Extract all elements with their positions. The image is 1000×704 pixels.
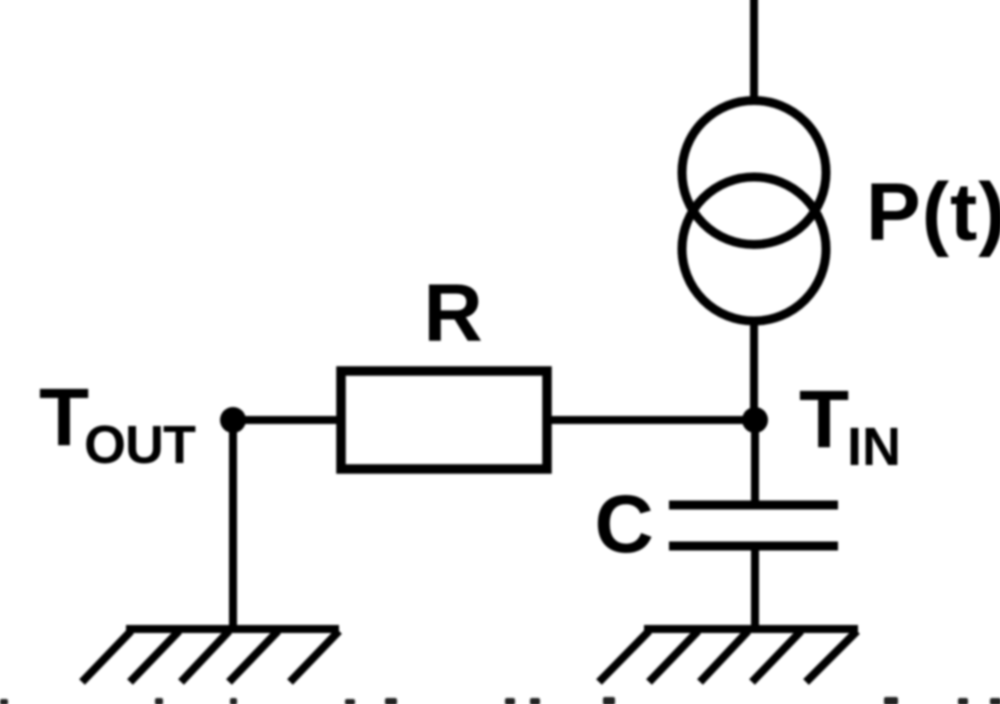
svg-text:OUT: OUT: [84, 415, 196, 475]
svg-text:P(t): P(t): [866, 167, 1000, 258]
svg-text:T: T: [799, 374, 849, 465]
svg-text:C: C: [595, 479, 654, 570]
svg-text:R: R: [424, 268, 483, 359]
svg-text:T: T: [39, 372, 89, 463]
svg-text:IN: IN: [847, 417, 901, 477]
